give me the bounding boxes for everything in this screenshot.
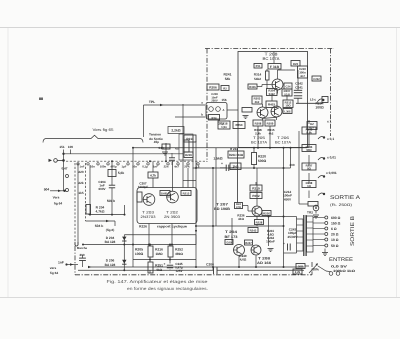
svg-text:151: 151 — [59, 145, 64, 149]
svg-text:L5 c: L5 c — [310, 98, 317, 102]
svg-text:Marche: Marche — [77, 246, 88, 250]
rail y168 — [193, 167, 291, 169]
svg-text:R219: R219 — [252, 187, 260, 191]
svg-text:fig 64: fig 64 — [54, 202, 63, 206]
svg-text:(fig.6): (fig.6) — [106, 228, 115, 232]
box R309 — [265, 120, 275, 126]
vertical wire x196 — [195, 141, 197, 267]
enclosure dash-dot left lower — [74, 246, 76, 275]
box C248 right of Q — [284, 83, 292, 89]
svg-text:R228: R228 — [256, 220, 263, 224]
page edge bottom — [0, 297, 400, 299]
vertical wire x124 — [123, 235, 125, 270]
resistor box vertical — [266, 71, 270, 80]
box R303 — [252, 96, 262, 104]
vertical wire x193 — [192, 135, 194, 188]
vertical wire x188 — [187, 168, 189, 188]
wire to jack — [298, 200, 300, 204]
svg-text:SORTIE A: SORTIE A — [330, 195, 360, 201]
svg-text:2N 3903: 2N 3903 — [164, 215, 180, 219]
selector contact a — [66, 175, 69, 178]
page edge right — [396, 28, 398, 297]
box right of driver — [262, 211, 271, 216]
wire stub 151 — [63, 150, 65, 161]
box R312 — [283, 100, 293, 108]
box R247 — [245, 240, 253, 245]
svg-text:x 0,001: x 0,001 — [326, 171, 337, 175]
wire y180 — [183, 180, 196, 182]
svg-text:T 208: T 208 — [258, 257, 270, 261]
box R234 mid — [228, 151, 244, 158]
svg-text:Vers fig 65: Vers fig 65 — [93, 128, 114, 132]
transistor T202 — [167, 191, 179, 203]
svg-text:R403: R403 — [268, 103, 275, 107]
box R304 — [267, 89, 278, 96]
resistor box R252 — [168, 246, 173, 257]
page edge top — [0, 27, 400, 29]
box right bistable — [181, 191, 191, 196]
wires amplifier internals — [273, 52, 275, 64]
svg-text:1k5: 1k5 — [78, 191, 83, 195]
svg-text:T 203: T 203 — [142, 211, 154, 215]
wires attenuator — [308, 134, 310, 148]
svg-text:450V: 450V — [284, 197, 292, 201]
ground amp — [243, 115, 249, 117]
svg-text:220: 220 — [78, 170, 83, 174]
svg-text:100Ω: 100Ω — [315, 106, 324, 110]
wire x290 down — [290, 148, 292, 168]
transistor T205 — [257, 107, 268, 118]
svg-text:R251: R251 — [155, 264, 163, 268]
svg-text:41Ω: 41Ω — [238, 217, 244, 221]
relay box Re201 — [206, 103, 227, 120]
svg-text:4,6Ω: 4,6Ω — [240, 258, 247, 262]
wire driver base — [243, 205, 249, 207]
svg-text:5,6k: 5,6k — [118, 171, 125, 175]
svg-text:2,2kΩ: 2,2kΩ — [171, 128, 181, 132]
svg-text:R 234: R 234 — [230, 147, 238, 151]
vertical x133 — [132, 148, 134, 267]
svg-text:BF 173: BF 173 — [225, 235, 238, 239]
svg-text:A: A — [223, 109, 225, 112]
page edge left — [7, 28, 9, 297]
box R219 — [250, 185, 262, 191]
svg-text:T 205: T 205 — [253, 136, 265, 140]
rail y267 — [88, 266, 304, 268]
svg-text:TR2: TR2 — [307, 211, 313, 215]
svg-text:R305: R305 — [249, 86, 256, 89]
pot wire y214.6 — [89, 214, 125, 216]
svg-text:BC 107A: BC 107A — [251, 141, 268, 145]
box C262 — [312, 76, 321, 81]
transistor Q upper — [272, 79, 283, 90]
svg-text:4kΩ: 4kΩ — [156, 268, 163, 272]
transistor T203 — [143, 194, 155, 206]
transistor T-driver — [252, 206, 262, 216]
wire y221 arrow — [86, 220, 116, 222]
wire R220 — [253, 148, 255, 153]
svg-text:54k2: 54k2 — [269, 92, 276, 96]
wire C204 column — [111, 161, 113, 185]
wire right column — [297, 70, 299, 90]
svg-text:1μF: 1μF — [122, 164, 127, 168]
svg-text:125V: 125V — [175, 269, 182, 273]
svg-text:4,7kΩ: 4,7kΩ — [96, 209, 105, 213]
svg-text:x 1: x 1 — [327, 120, 332, 124]
diode D206 — [122, 260, 126, 264]
svg-text:49kΩ: 49kΩ — [175, 252, 183, 256]
resistor box R216 — [148, 246, 153, 257]
svg-text:SORTIE B: SORTIE B — [350, 216, 356, 246]
svg-text:4k2: 4k2 — [269, 132, 274, 136]
ground output — [268, 248, 274, 250]
svg-text:R308: R308 — [255, 121, 262, 125]
ink speck left — [39, 98, 43, 101]
svg-text:F 31B: F 31B — [270, 65, 280, 69]
capacitor C241 plates — [294, 95, 302, 97]
box R308 — [253, 120, 263, 126]
svg-text:100Ω: 100Ω — [135, 252, 144, 256]
svg-text:22n: 22n — [164, 164, 169, 168]
svg-text:504 b: 504 b — [95, 224, 104, 228]
svg-text:C262: C262 — [313, 78, 320, 81]
pot box F31B — [268, 64, 281, 70]
zener box — [307, 122, 317, 130]
vertical wire x268 — [268, 217, 270, 247]
pot wiper arrow — [309, 265, 317, 274]
electrolytic C243 — [287, 244, 289, 251]
svg-text:P202: P202 — [252, 194, 260, 198]
svg-text:BC 107A: BC 107A — [263, 56, 280, 61]
svg-text:+: + — [221, 162, 223, 166]
svg-text:AD 166: AD 166 — [257, 261, 271, 265]
svg-text:600V: 600V — [98, 187, 105, 191]
bus solid x90 — [89, 165, 91, 215]
capacitor C205 — [169, 157, 175, 159]
svg-text:R2: R2 — [223, 87, 227, 90]
capacitor C245 — [167, 264, 173, 266]
svg-text:R241: R241 — [223, 73, 231, 77]
rail y226 — [196, 225, 284, 227]
resistor box R208 — [148, 172, 158, 178]
svg-text:BC 107A: BC 107A — [275, 141, 292, 145]
resistor R220 box — [252, 153, 257, 165]
arrow on rail y267 — [88, 266, 92, 268]
svg-text:(Rₗ. 250Ω): (Rₗ. 250Ω) — [330, 203, 352, 207]
svg-text:R247: R247 — [245, 242, 252, 245]
svg-text:BD 106B: BD 106B — [214, 207, 231, 211]
attenuator box R236 — [302, 145, 316, 152]
rail y244.5 — [83, 244, 196, 246]
box R243 — [248, 228, 258, 233]
svg-text:R211: R211 — [186, 137, 194, 141]
svg-text:TPL: TPL — [149, 100, 155, 104]
entree jacks — [329, 272, 333, 276]
box P318 small — [254, 64, 262, 69]
box L305 — [283, 109, 292, 114]
svg-text:156: 156 — [221, 98, 226, 102]
wire x237.5 down — [237, 148, 239, 203]
svg-text:R234 104Ω: R234 104Ω — [229, 153, 244, 157]
svg-text:4,7k: 4,7k — [150, 174, 156, 178]
svg-text:22k: 22k — [78, 181, 83, 185]
switch contacts row — [77, 163, 79, 165]
svg-text:b: b — [201, 113, 203, 117]
vertical wire x183 — [182, 104, 184, 188]
wire top rail y155 — [64, 153, 184, 155]
svg-text:BA 128: BA 128 — [105, 263, 116, 267]
enclosure dash-dot left — [206, 49, 208, 163]
svg-text:54k2: 54k2 — [254, 77, 261, 81]
resistor R204 box — [86, 205, 91, 215]
svg-text:1000pF: 1000pF — [138, 185, 149, 189]
diode D204 — [122, 237, 126, 241]
transformer secondary — [307, 216, 314, 252]
svg-text:20Ω: 20Ω — [298, 264, 304, 268]
capacitor C206 — [213, 267, 215, 274]
svg-text:vers: vers — [50, 266, 57, 270]
svg-text:10Ω: 10Ω — [285, 104, 291, 108]
vertical wire x216 — [215, 148, 217, 226]
svg-text:1kΩ: 1kΩ — [233, 165, 239, 169]
box R211 — [184, 135, 196, 142]
vertical wire x283 — [283, 148, 285, 267]
wire transformer bottom — [284, 252, 297, 254]
box left small — [242, 108, 252, 113]
ground sortie B — [322, 252, 328, 254]
svg-text:x 0,01: x 0,01 — [327, 156, 336, 160]
svg-text:R226: R226 — [139, 224, 147, 228]
rail y216.5 — [246, 216, 284, 218]
wires driver — [256, 168, 258, 206]
bus solid x78 — [77, 163, 79, 246]
svg-text:Vers: Vers — [53, 196, 60, 200]
svg-text:Fig. 147. Amplificateur et éta: Fig. 147. Amplificateur et étages de mis… — [107, 279, 209, 284]
svg-text:C24: C24 — [286, 85, 291, 88]
enclosure dash-dot right — [330, 49, 332, 137]
svg-text:T 207: T 207 — [216, 202, 228, 206]
svg-text:50k b: 50k b — [107, 199, 115, 203]
box 20ohm — [296, 264, 305, 269]
svg-text:470p: 470p — [110, 164, 117, 168]
vertical wire x213 — [212, 168, 214, 270]
rail y147.8 — [133, 147, 307, 149]
wire transformer top — [284, 216, 297, 218]
resistor R212 box — [108, 170, 116, 177]
svg-text:2N3703: 2N3703 — [141, 215, 156, 219]
transformer core — [303, 215, 305, 256]
svg-text:L305: L305 — [284, 110, 291, 113]
vertical wire x232 — [231, 218, 233, 244]
svg-text:20%: 20% — [184, 164, 190, 168]
svg-text:D20: D20 — [227, 241, 232, 244]
svg-text:10n: 10n — [90, 164, 95, 168]
box P202 — [250, 193, 262, 199]
capacitor C242 plates — [294, 89, 302, 91]
svg-text:0,47: 0,47 — [61, 167, 67, 171]
resistor box R209 left — [221, 86, 229, 91]
resistor box left bistable — [137, 192, 142, 202]
junction dots rails — [132, 147, 134, 149]
svg-text:R309: R309 — [267, 121, 274, 125]
box L5 right — [322, 97, 328, 103]
box 1k — [230, 163, 241, 170]
svg-text:0,9k: 0,9k — [306, 131, 312, 135]
relay wire to amp box — [227, 109, 238, 111]
box D20x left — [225, 240, 233, 245]
svg-text:500Ω: 500Ω — [258, 159, 267, 163]
svg-text:100n: 100n — [100, 164, 107, 168]
svg-text:x 0,1: x 0,1 — [327, 137, 334, 141]
svg-text:R226: R226 — [185, 153, 192, 157]
svg-text:100: 100 — [68, 145, 73, 149]
capacitor C204 — [109, 184, 115, 186]
svg-text:50 Ω: 50 Ω — [331, 244, 339, 248]
rail y270.3 — [78, 269, 214, 271]
attenuator box R238 — [302, 181, 316, 188]
bus dashed x75 — [74, 163, 76, 245]
svg-text:10 Ω: 10 Ω — [331, 238, 339, 242]
wire y234.8 — [124, 234, 196, 236]
relay inner box — [209, 115, 220, 121]
wire y103.3 — [296, 102, 322, 104]
svg-text:R220: R220 — [258, 155, 266, 159]
boxes above jack — [308, 202, 318, 207]
svg-text:4,6: 4,6 — [175, 147, 179, 151]
attenuator box R237 — [302, 163, 316, 170]
svg-text:600 Ω: 600 Ω — [331, 216, 341, 220]
diode box 1N914 — [160, 191, 170, 196]
svg-text:53,8: 53,8 — [284, 92, 290, 96]
svg-text:4n7: 4n7 — [174, 164, 179, 168]
box C240 — [298, 66, 308, 78]
attenuator vertical wire — [298, 131, 300, 200]
bus dashed x85 — [85, 163, 87, 221]
bistable wires — [152, 161, 154, 172]
svg-text:R206: R206 — [209, 85, 217, 89]
svg-text:1,5kΩ: 1,5kΩ — [213, 157, 223, 161]
svg-text:R250: R250 — [236, 123, 243, 127]
svg-text:1MΩ: 1MΩ — [155, 252, 163, 256]
attenuator contacts — [318, 137, 324, 139]
selector contact b — [66, 189, 69, 192]
svg-text:C206: C206 — [206, 263, 214, 267]
input connector J201 — [49, 159, 53, 162]
box R307 53,8 — [282, 89, 292, 96]
svg-text:R243: R243 — [250, 228, 257, 232]
svg-text:T 204: T 204 — [225, 230, 237, 234]
marche plug U-bend — [75, 242, 78, 246]
resistor box R251 — [148, 262, 153, 273]
wire stub 100 — [70, 150, 72, 154]
svg-text:T 202: T 202 — [166, 211, 178, 215]
svg-text:R24: R24 — [212, 117, 217, 120]
box 2,2k — [293, 269, 302, 274]
box C218 — [218, 121, 230, 129]
svg-text:47Ω: 47Ω — [236, 206, 241, 209]
resistor box R305 — [248, 84, 257, 89]
svg-text:1,5n: 1,5n — [221, 125, 227, 129]
transformer taps — [313, 217, 325, 219]
svg-text:0,1μ: 0,1μ — [142, 164, 148, 168]
svg-text:BA 128: BA 128 — [105, 240, 116, 244]
svg-text:+: + — [164, 262, 166, 266]
box R250 — [233, 122, 245, 129]
enclosure dash-dot bottom-right jog — [311, 262, 313, 275]
svg-text:R252: R252 — [175, 248, 183, 252]
box R228 — [255, 220, 264, 225]
svg-text:6 Ω: 6 Ω — [331, 227, 337, 231]
trimmer cap 45p — [162, 144, 170, 149]
svg-text:R226: R226 — [263, 211, 270, 215]
svg-text:4n7: 4n7 — [300, 74, 305, 78]
svg-text:R23: R23 — [293, 62, 299, 66]
transformer primary — [297, 219, 304, 251]
rail y259.5 — [133, 259, 196, 261]
svg-text:200: 200 — [289, 163, 294, 167]
box 2,2k — [168, 127, 184, 134]
svg-text:20 Ω: 20 Ω — [331, 232, 339, 236]
svg-text:45p: 45p — [154, 140, 159, 144]
svg-text:25/30V: 25/30V — [288, 235, 299, 239]
wires out — [238, 256, 240, 267]
svg-text:250V: 250V — [211, 100, 217, 103]
resistor box R206 left — [207, 84, 219, 90]
attenuator box R235 — [302, 127, 316, 134]
enclosure dash-dot bottom — [75, 274, 312, 276]
svg-text:150 Ω: 150 Ω — [331, 221, 341, 225]
svg-text:R216: R216 — [155, 248, 163, 252]
brace vers fig 65 — [43, 135, 143, 142]
enclosure dash-dot top — [205, 48, 334, 50]
box R204b — [235, 203, 243, 209]
transistor T206 — [271, 106, 282, 117]
bistable box — [137, 188, 197, 224]
svg-text:+: + — [283, 242, 285, 246]
wire connector down — [63, 160, 65, 191]
svg-text:T 206: T 206 — [277, 136, 289, 140]
svg-text:R205: R205 — [135, 248, 143, 252]
line b y117 — [175, 116, 205, 118]
box R403 — [266, 101, 277, 108]
svg-text:90Ω: 90Ω — [306, 148, 312, 152]
svg-text:1nF: 1nF — [58, 261, 64, 265]
wire TPL to brace — [143, 105, 145, 137]
svg-text:C241: C241 — [295, 86, 303, 90]
svg-text:100nF: 100nF — [266, 240, 275, 244]
svg-text:340: 340 — [158, 146, 163, 150]
box R226 small — [184, 152, 193, 158]
svg-text:ENTREE: ENTREE — [329, 257, 354, 263]
svg-text:P31: P31 — [256, 65, 261, 68]
svg-text:Tension: Tension — [149, 132, 161, 136]
capacitor C209 — [225, 165, 227, 171]
svg-text:504: 504 — [44, 187, 50, 191]
svg-text:2,2k: 2,2k — [295, 270, 301, 274]
R network verticals — [149, 245, 151, 247]
wires entree — [305, 265, 309, 267]
svg-text:1N914: 1N914 — [161, 191, 170, 195]
svg-text:54k: 54k — [225, 77, 231, 81]
svg-text:1nF: 1nF — [80, 164, 85, 168]
svg-text:1nF: 1nF — [153, 164, 158, 168]
pot dashed box — [179, 134, 193, 160]
ground G1 — [162, 151, 168, 153]
svg-text:2k2: 2k2 — [255, 100, 260, 104]
sortie A jack — [313, 205, 319, 211]
box R233 top — [291, 61, 300, 67]
svg-text:fig 64: fig 64 — [50, 271, 58, 275]
